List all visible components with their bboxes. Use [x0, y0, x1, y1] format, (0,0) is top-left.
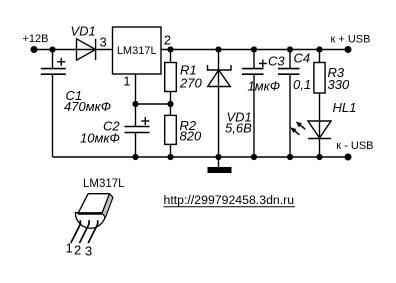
node bottom rail C3: [251, 154, 257, 160]
regulator U1 LM317L: [113, 27, 162, 74]
svg-text:3: 3: [85, 244, 92, 259]
node top rail R3: [316, 46, 322, 52]
label R3 value: [328, 65, 350, 92]
node bottom rail ground: [215, 154, 221, 160]
svg-text:C4: C4: [294, 51, 311, 66]
zener diode VD1 5.6V: [208, 50, 232, 158]
resistor R1: [165, 50, 177, 105]
node bottom rail C2: [132, 154, 138, 160]
svg-text:к + USB: к + USB: [331, 34, 371, 46]
node top rail R1: [167, 46, 173, 52]
wire top rail pin2 to +USB: [161, 49, 348, 51]
label R2 value: [180, 118, 202, 144]
svg-text:+12В: +12В: [23, 33, 49, 45]
svg-text:2: 2: [164, 33, 171, 48]
node top rail C3: [251, 46, 257, 52]
svg-text:LM317L: LM317L: [117, 45, 157, 57]
svg-text:330: 330: [328, 77, 350, 92]
svg-text:1: 1: [66, 241, 73, 256]
svg-text:LM317L: LM317L: [83, 178, 125, 190]
link URL: [164, 193, 296, 207]
wire link pin1 to R1/R2: [136, 103, 171, 105]
svg-text:10мкФ: 10мкФ: [80, 131, 120, 146]
label C2 value: [80, 119, 120, 146]
capacitor C3: [242, 50, 267, 158]
node junction C1 / input: [49, 46, 55, 52]
svg-text:270: 270: [179, 76, 202, 91]
node terminal k-USB: [336, 140, 373, 161]
svg-text:1: 1: [123, 74, 130, 89]
package drawing LM317L TO-92: [66, 178, 126, 259]
svg-text:C3: C3: [268, 54, 285, 69]
node bottom rail C4: [287, 154, 293, 160]
svg-text:0,1: 0,1: [293, 77, 311, 92]
label C4 value: [293, 51, 311, 93]
svg-text:1мкФ: 1мкФ: [248, 79, 281, 94]
LED HL1: [290, 100, 356, 157]
svg-text:820: 820: [180, 129, 202, 144]
label R1 value: [179, 63, 202, 91]
label C1 value: [64, 88, 111, 114]
node pin1 link right: [167, 101, 173, 107]
label zener VD1 value: [225, 110, 252, 136]
svg-text:470мкФ: 470мкФ: [64, 99, 111, 114]
svg-text:к - USB: к - USB: [336, 140, 373, 152]
svg-text:5,6В: 5,6В: [225, 121, 252, 136]
svg-text:HL1: HL1: [333, 100, 357, 115]
node terminal k+USB: [331, 34, 371, 54]
node top rail zener: [215, 46, 221, 52]
node pin1 link left: [132, 101, 138, 107]
capacitor C4: [278, 50, 300, 158]
wire pin 1 down: [135, 74, 137, 104]
svg-text:http://299792458.3dn.ru: http://299792458.3dn.ru: [164, 193, 295, 207]
node bottom rail R2: [167, 154, 173, 160]
svg-text:3: 3: [100, 35, 107, 50]
wire bottom rail: [53, 156, 349, 158]
ground: [208, 157, 232, 173]
wire input to regulator pin 3: [34, 49, 113, 51]
capacitor C2: [125, 104, 150, 157]
node +12V input terminal: [23, 33, 49, 53]
resistor R2: [165, 104, 177, 157]
label C3 value: [248, 54, 286, 94]
svg-text:VD1: VD1: [71, 24, 96, 39]
svg-text:2: 2: [74, 243, 81, 258]
node bottom rail LED: [316, 154, 322, 160]
diode VD1: [71, 24, 96, 61]
resistor R3: [314, 50, 325, 122]
node top rail C4: [287, 46, 293, 52]
capacitor C1: [41, 50, 66, 158]
